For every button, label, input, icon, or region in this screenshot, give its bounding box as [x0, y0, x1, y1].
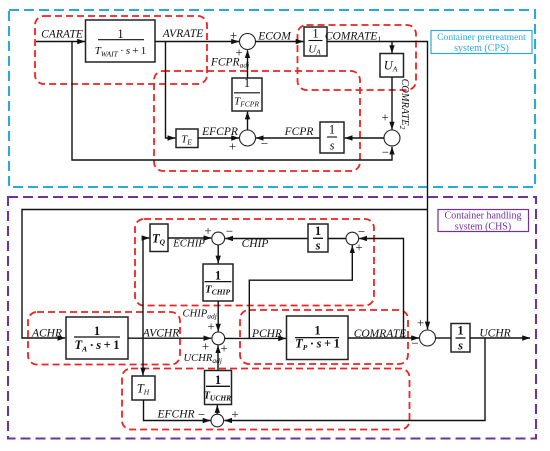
summing junction central — [212, 332, 225, 345]
red dashed subsystem box R4 — [122, 369, 410, 430]
wire AVRATE into ECOM summing junction — [155, 41, 239, 43]
svg-text:FCPR: FCPR — [284, 126, 314, 138]
block 1/s upper — [308, 224, 328, 253]
block 1/TUCHR — [204, 371, 232, 405]
block UA — [380, 54, 404, 78]
block 1/UA — [304, 27, 327, 57]
block 1/s FCPR — [320, 122, 344, 153]
wire AVCHR into central junction — [128, 337, 211, 339]
svg-text:1: 1 — [215, 268, 221, 282]
CHS outer dashed border — [8, 197, 536, 439]
wire from COMRATE1 drop across top of CHS and down into ACHR — [22, 210, 428, 339]
node UCHR branch + feedback wire down/left into bottom junction — [224, 338, 485, 421]
red dashed subsystem box RA — [35, 16, 207, 84]
svg-text:s: s — [330, 139, 335, 153]
svg-text:ECOM: ECOM — [257, 31, 292, 43]
wire EFCPR into junction — [198, 137, 239, 139]
svg-text:TP · s + 1: TP · s + 1 — [295, 337, 340, 353]
summing junction COMRATE2 — [384, 130, 400, 146]
svg-text:1: 1 — [94, 324, 100, 338]
svg-text:+: + — [207, 319, 214, 334]
svg-text:1: 1 — [457, 324, 463, 338]
svg-text:Container handling: Container handling — [445, 211, 522, 222]
svg-text:+: + — [381, 110, 388, 125]
CPS label box — [431, 31, 532, 55]
block 1/(Twait s+1) — [86, 20, 156, 62]
wire CHIP junction down into 1/TCHIP — [217, 245, 219, 263]
wire main junction to 1/s right — [436, 337, 452, 339]
wire CHIP from 1/s into junction — [225, 238, 308, 240]
svg-text:+: + — [417, 315, 424, 330]
wire junction to 1/s upper — [328, 238, 346, 240]
block TE — [176, 129, 198, 148]
svg-text:COMRATE2: COMRATE2 — [398, 79, 410, 130]
CPS outer dashed border — [9, 10, 535, 187]
wire UCHR output — [470, 337, 530, 339]
svg-text:system (CHS): system (CHS) — [455, 222, 511, 233]
svg-text:s: s — [315, 239, 321, 253]
svg-text:−: − — [358, 224, 365, 239]
wire COMRATE2 down into junction — [391, 77, 393, 130]
summing junction bottom — [211, 414, 224, 427]
block 1/s right — [451, 324, 470, 353]
svg-text:COMRATE1: COMRATE1 — [325, 31, 381, 44]
summing junction main — [420, 330, 436, 346]
wire FCPR into EFCPR junction — [256, 137, 320, 139]
svg-text:AVRATE: AVRATE — [162, 28, 204, 40]
svg-text:−: − — [261, 136, 268, 151]
wire PCHR into TP block — [225, 337, 286, 339]
summing junction ECOM — [240, 34, 256, 50]
wire COMRATE into main junction — [348, 337, 419, 339]
block 1/TCHIP — [203, 264, 233, 301]
red dashed subsystem box R3 — [240, 310, 408, 364]
svg-text:ACHR: ACHR — [31, 328, 62, 340]
svg-text:TA · s + 1: TA · s + 1 — [74, 338, 119, 354]
block TQ — [150, 224, 168, 252]
svg-text:CHIP: CHIP — [242, 238, 269, 250]
node AVRATE branch + wire down into TE — [166, 42, 176, 139]
svg-text:1: 1 — [215, 373, 221, 387]
svg-text:−: − — [198, 407, 205, 422]
wire FCPRadj up into ECOM junction — [247, 50, 249, 78]
svg-text:+: + — [204, 223, 211, 238]
svg-text:+: + — [231, 407, 238, 422]
wire COMRATE1 right then long drop into CHS main junction — [327, 42, 428, 330]
wire ECOM into 1/UA block — [256, 41, 304, 43]
svg-text:COMRATE: COMRATE — [354, 328, 407, 340]
wire ECHIP into CHIP junction — [168, 237, 211, 239]
svg-text:+: + — [202, 339, 209, 354]
wire UCHRadj up into central junction — [217, 345, 219, 370]
red dashed subsystem box RC — [154, 71, 360, 171]
svg-text:+: + — [229, 139, 236, 154]
svg-text:PCHR: PCHR — [251, 328, 282, 340]
svg-text:AVCHR: AVCHR — [142, 328, 179, 340]
svg-text:+: + — [355, 240, 362, 255]
node AVCHR branch + wire up into TQ — [143, 238, 149, 338]
red dashed subsystem box RB — [298, 25, 417, 90]
svg-text:ECHIP: ECHIP — [172, 238, 205, 250]
svg-text:Container pretreatment: Container pretreatment — [437, 32, 526, 43]
summing junction upper-right — [346, 232, 359, 245]
red dashed subsystem box R2 — [28, 312, 180, 365]
block 1/TFCPR — [232, 76, 262, 111]
svg-text:EFCHR: EFCHR — [156, 409, 194, 421]
svg-text:−: − — [411, 336, 418, 351]
svg-text:1: 1 — [314, 324, 320, 338]
block 1/(TA s+1) — [66, 317, 128, 359]
svg-text:1: 1 — [117, 27, 123, 41]
wire CARATE into block1 — [36, 41, 85, 43]
svg-text:CARATE: CARATE — [41, 29, 83, 41]
svg-text:s: s — [457, 339, 463, 353]
svg-text:system (CPS): system (CPS) — [454, 43, 509, 54]
wire PCHR branch loop up into upper-right junction bottom — [249, 245, 352, 338]
wire junction up into TFCPR — [247, 112, 249, 130]
summing junction CHIP — [212, 232, 225, 245]
wire junction into 1/s block — [345, 137, 384, 139]
node AVCHR branch + wire down into TH — [142, 338, 144, 375]
svg-text:UCHR: UCHR — [479, 328, 510, 340]
node CARATE branch + wire down/bottom feedback into COMRATE2 junction — [72, 42, 392, 161]
wire EFCHR from TH into bottom junction — [144, 400, 211, 421]
svg-text:−: − — [382, 145, 389, 160]
red dashed subsystem box R1 — [135, 219, 374, 306]
wire bottom junction up into 1/TUCHR — [216, 405, 218, 414]
wire COMRATE feedback up and into upper-right junction — [359, 239, 403, 339]
svg-text:1: 1 — [312, 27, 318, 41]
summing junction EFCPR — [240, 130, 256, 146]
node COMRATE1 branch + wire down into UA — [391, 42, 393, 54]
svg-text:+: + — [230, 28, 237, 43]
svg-text:1: 1 — [315, 224, 321, 238]
svg-text:+: + — [220, 341, 227, 356]
svg-text:1: 1 — [244, 76, 250, 90]
svg-text:−: − — [226, 224, 233, 239]
svg-text:EFCPR: EFCPR — [201, 126, 238, 138]
wire CHIPadj down into central junction — [217, 301, 219, 332]
block 1/(TP s+1) — [287, 316, 349, 360]
svg-text:1: 1 — [329, 123, 335, 137]
CHS label box — [438, 210, 529, 233]
block TH — [132, 376, 155, 400]
